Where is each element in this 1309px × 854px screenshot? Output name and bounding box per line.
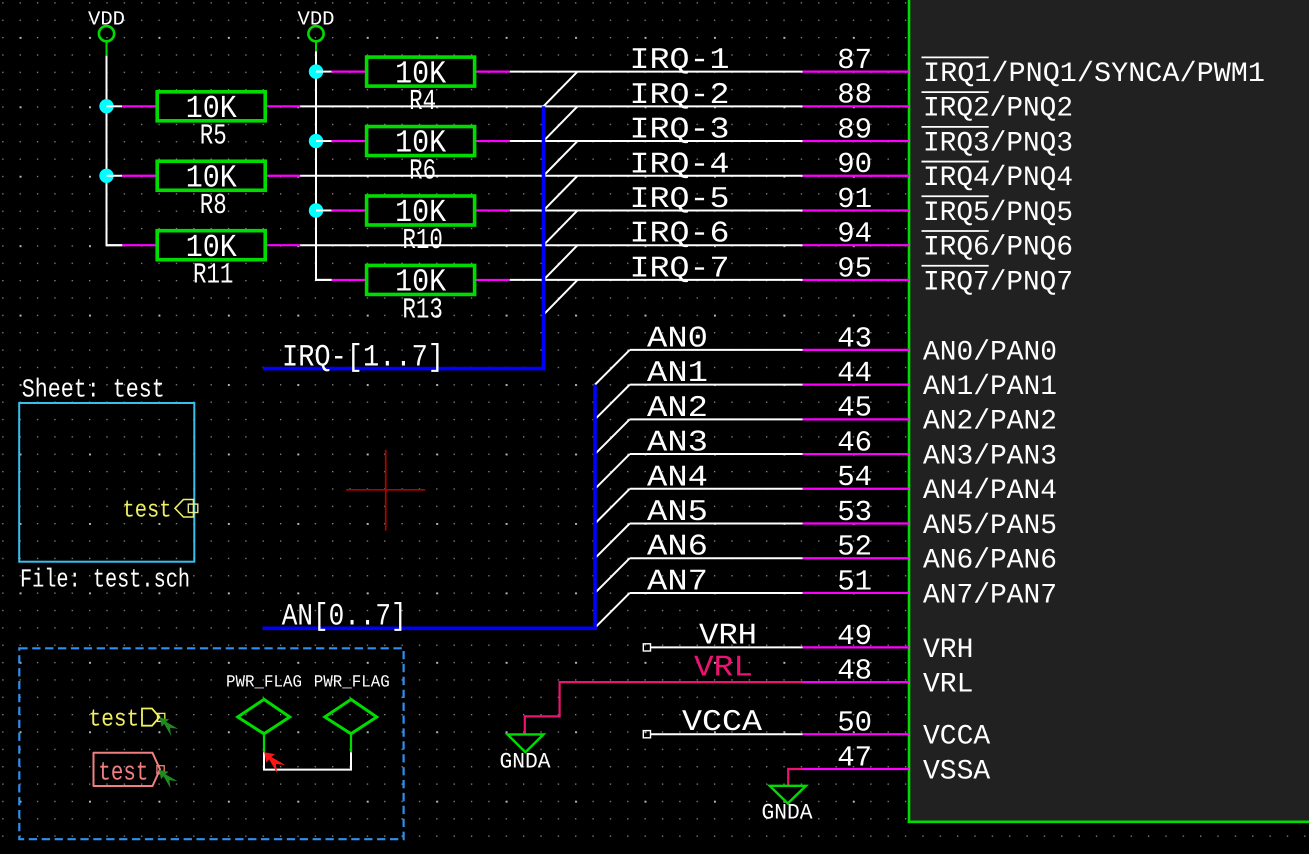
cursor crosshair bbox=[346, 450, 425, 531]
wire VCCA bbox=[650, 733, 802, 735]
pin 88 (IRQ2/PNQ2) bbox=[803, 79, 1074, 125]
svg-text:R4: R4 bbox=[409, 85, 436, 118]
svg-text:49: 49 bbox=[837, 620, 872, 653]
cursor arrow (red) bbox=[264, 752, 285, 773]
hierarchical label testD bbox=[89, 707, 165, 734]
wire AN net bbox=[630, 557, 803, 559]
resistor R11 (10K) bbox=[107, 229, 301, 292]
svg-text:PWR_FLAG: PWR_FLAG bbox=[226, 673, 302, 692]
sheet symbol "test" bbox=[19, 403, 194, 562]
bus entry bbox=[595, 524, 630, 559]
svg-text:VCCA: VCCA bbox=[923, 722, 990, 753]
svg-text:90: 90 bbox=[837, 148, 872, 181]
svg-text:43: 43 bbox=[837, 322, 872, 355]
svg-text:test: test bbox=[89, 707, 140, 734]
svg-text:AN5: AN5 bbox=[647, 496, 708, 530]
svg-text:AN1/PAN1: AN1/PAN1 bbox=[923, 372, 1057, 403]
bus entry bbox=[595, 350, 630, 385]
selection box (dashed) bbox=[19, 648, 403, 839]
svg-text:R13: R13 bbox=[402, 293, 443, 326]
wire AN net bbox=[630, 384, 803, 386]
svg-text:50: 50 bbox=[837, 707, 872, 740]
svg-text:VDD: VDD bbox=[88, 8, 125, 31]
svg-text:IRQ7/PNQ7: IRQ7/PNQ7 bbox=[923, 267, 1073, 298]
wire AN net bbox=[630, 592, 803, 594]
bus entry bbox=[544, 245, 578, 280]
svg-text:53: 53 bbox=[837, 496, 872, 529]
svg-text:IRQ-3: IRQ-3 bbox=[630, 114, 730, 148]
svg-text:IRQ-2: IRQ-2 bbox=[630, 79, 730, 113]
svg-text:52: 52 bbox=[837, 531, 872, 564]
wire AN net bbox=[630, 488, 803, 490]
svg-text:test: test bbox=[123, 498, 172, 525]
svg-text:91: 91 bbox=[837, 183, 872, 216]
svg-text:AN3: AN3 bbox=[647, 427, 708, 461]
unconnected-end square VRH bbox=[643, 644, 650, 651]
bus entry bbox=[544, 280, 578, 315]
pin 46 (AN3/PAN3) bbox=[803, 426, 1058, 472]
svg-text:AN3/PAN3: AN3/PAN3 bbox=[923, 441, 1057, 472]
power symbol VDD #1 bbox=[88, 8, 125, 56]
svg-text:R11: R11 bbox=[193, 259, 234, 292]
junction bbox=[99, 99, 113, 113]
svg-text:IRQ5/PNQ5: IRQ5/PNQ5 bbox=[923, 198, 1073, 229]
cursor arrow (green) #2 bbox=[159, 770, 177, 788]
svg-text:87: 87 bbox=[837, 44, 872, 77]
pin 45 (AN2/PAN2) bbox=[803, 392, 1058, 438]
junction bbox=[309, 134, 323, 148]
global label test bbox=[94, 753, 165, 788]
svg-text:AN[0..7]: AN[0..7] bbox=[282, 600, 407, 635]
svg-text:48: 48 bbox=[837, 655, 872, 688]
svg-text:IRQ-1: IRQ-1 bbox=[630, 44, 730, 78]
svg-text:AN7/PAN7: AN7/PAN7 bbox=[923, 580, 1057, 611]
bus entry bbox=[544, 106, 578, 141]
svg-text:95: 95 bbox=[837, 252, 872, 285]
svg-text:IRQ-4: IRQ-4 bbox=[630, 148, 730, 182]
svg-text:IRQ1/PNQ1/SYNCA/PWM1: IRQ1/PNQ1/SYNCA/PWM1 bbox=[923, 59, 1265, 90]
svg-text:51: 51 bbox=[837, 565, 872, 598]
svg-text:AN0/PAN0: AN0/PAN0 bbox=[923, 337, 1057, 368]
power flag PWR_FLAG #2 bbox=[314, 673, 390, 752]
svg-text:54: 54 bbox=[837, 461, 872, 494]
junction bbox=[99, 169, 113, 183]
pin 87 (IRQ1/PNQ1/SYNCA/PWM1) bbox=[803, 44, 1266, 90]
bus entry bbox=[595, 489, 630, 524]
pin 89 (IRQ3/PNQ3) bbox=[803, 113, 1074, 159]
svg-text:AN2/PAN2: AN2/PAN2 bbox=[923, 407, 1057, 438]
bus entry bbox=[595, 419, 630, 454]
wire IRQ net bbox=[300, 105, 803, 107]
wire IRQ net bbox=[510, 279, 803, 281]
wire AN net bbox=[630, 523, 803, 525]
svg-text:R8: R8 bbox=[200, 189, 227, 222]
svg-text:R5: R5 bbox=[200, 120, 227, 153]
pin 50 (VCCA) bbox=[803, 707, 991, 753]
pin 94 (IRQ6/PNQ6) bbox=[803, 218, 1074, 264]
bus entry bbox=[595, 385, 630, 420]
bus entry bbox=[595, 558, 630, 593]
wire AN net bbox=[630, 453, 803, 455]
resistor R13 (10K) bbox=[316, 264, 510, 327]
wire VSSA (highlighted) bbox=[788, 769, 802, 786]
ground GNDA #2 bbox=[762, 786, 814, 826]
svg-text:R10: R10 bbox=[402, 224, 443, 257]
bus entry bbox=[595, 454, 630, 489]
svg-text:IRQ-7: IRQ-7 bbox=[630, 252, 730, 286]
resistor R8 (10K) bbox=[107, 159, 301, 222]
svg-text:IRQ-6: IRQ-6 bbox=[630, 218, 730, 252]
wire IRQ net bbox=[510, 140, 803, 142]
svg-text:VRL: VRL bbox=[923, 670, 973, 701]
pin 44 (AN1/PAN1) bbox=[803, 357, 1058, 403]
svg-text:GNDA: GNDA bbox=[500, 749, 552, 774]
wire VDD rail 2 bbox=[316, 52, 332, 280]
resistor R5 (10K) bbox=[107, 90, 301, 153]
bus entry bbox=[595, 593, 630, 628]
wire VRH bbox=[650, 646, 802, 648]
resistor R4 (10K) bbox=[316, 55, 510, 118]
pin 43 (AN0/PAN0) bbox=[803, 322, 1058, 368]
wire IRQ net bbox=[510, 209, 803, 211]
svg-text:AN1: AN1 bbox=[647, 357, 708, 391]
svg-text:AN2: AN2 bbox=[647, 392, 708, 426]
bus entry bbox=[544, 210, 578, 245]
svg-text:VCCA: VCCA bbox=[682, 706, 762, 740]
pin 49 (VRH) bbox=[803, 620, 974, 666]
IC U1 body bbox=[910, 0, 1309, 821]
svg-text:44: 44 bbox=[837, 357, 872, 390]
svg-text:94: 94 bbox=[837, 218, 872, 251]
bus IRQ-[1..7] bbox=[263, 106, 544, 368]
svg-text:45: 45 bbox=[837, 392, 872, 425]
pin 48 (VRL) bbox=[803, 655, 974, 701]
pin 52 (AN6/PAN6) bbox=[803, 531, 1058, 577]
wire AN net bbox=[630, 418, 803, 420]
svg-text:88: 88 bbox=[837, 79, 872, 112]
resistor R10 (10K) bbox=[316, 194, 510, 257]
bus entry bbox=[544, 176, 578, 211]
wire between power flags bbox=[264, 752, 351, 769]
svg-text:46: 46 bbox=[837, 426, 872, 459]
svg-text:AN5/PAN5: AN5/PAN5 bbox=[923, 511, 1057, 542]
unconnected-end square VCCA bbox=[643, 731, 650, 738]
svg-text:IRQ3/PNQ3: IRQ3/PNQ3 bbox=[923, 128, 1073, 159]
svg-text:89: 89 bbox=[837, 113, 872, 146]
svg-text:R6: R6 bbox=[409, 154, 436, 187]
svg-text:IRQ2/PNQ2: IRQ2/PNQ2 bbox=[923, 94, 1073, 125]
pin 51 (AN7/PAN7) bbox=[803, 565, 1058, 611]
wire IRQ net bbox=[300, 175, 803, 177]
svg-text:VRL: VRL bbox=[694, 652, 753, 686]
svg-text:GNDA: GNDA bbox=[762, 801, 814, 826]
svg-text:47: 47 bbox=[837, 741, 872, 774]
svg-text:VRH: VRH bbox=[699, 620, 757, 654]
svg-text:AN6: AN6 bbox=[647, 531, 708, 565]
junction bbox=[309, 64, 323, 78]
svg-text:AN6/PAN6: AN6/PAN6 bbox=[923, 546, 1057, 577]
wire IRQ net bbox=[510, 71, 803, 73]
power symbol VDD #2 bbox=[298, 8, 335, 51]
cursor arrow (green) #1 bbox=[160, 718, 178, 736]
svg-text:IRQ6/PNQ6: IRQ6/PNQ6 bbox=[923, 233, 1073, 264]
wire AN net bbox=[630, 349, 803, 351]
svg-text:IRQ4/PNQ4: IRQ4/PNQ4 bbox=[923, 163, 1073, 194]
pin 91 (IRQ5/PNQ5) bbox=[803, 183, 1074, 229]
svg-text:File: test.sch: File: test.sch bbox=[20, 565, 190, 595]
ground GNDA #1 bbox=[500, 734, 552, 774]
bus AN[0..7] bbox=[263, 385, 596, 629]
svg-text:PWR_FLAG: PWR_FLAG bbox=[314, 673, 390, 692]
svg-text:AN4: AN4 bbox=[647, 461, 708, 495]
resistor R6 (10K) bbox=[316, 125, 510, 188]
wire VDD rail 1 bbox=[107, 56, 123, 245]
svg-text:VSSA: VSSA bbox=[923, 756, 990, 787]
power flag PWR_FLAG #1 bbox=[226, 673, 302, 752]
svg-text:test: test bbox=[98, 758, 148, 788]
svg-text:Sheet: test: Sheet: test bbox=[22, 375, 165, 405]
wire IRQ net bbox=[300, 244, 803, 246]
svg-text:AN7: AN7 bbox=[647, 565, 708, 599]
svg-text:VDD: VDD bbox=[298, 8, 335, 31]
pin 90 (IRQ4/PNQ4) bbox=[803, 148, 1074, 194]
sheet pin "test" bbox=[123, 498, 198, 525]
bus entry bbox=[544, 72, 578, 107]
pin 95 (IRQ7/PNQ7) bbox=[803, 252, 1074, 298]
junction bbox=[309, 203, 323, 217]
svg-text:VRH: VRH bbox=[923, 635, 973, 666]
svg-text:AN4/PAN4: AN4/PAN4 bbox=[923, 476, 1057, 507]
pin 47 (VSSA) bbox=[803, 741, 991, 787]
svg-text:IRQ-5: IRQ-5 bbox=[630, 183, 730, 217]
pin 54 (AN4/PAN4) bbox=[803, 461, 1058, 507]
wire VRL (highlighted) bbox=[525, 682, 803, 734]
svg-text:AN0: AN0 bbox=[647, 322, 708, 356]
bus entry bbox=[544, 141, 578, 176]
pin 53 (AN5/PAN5) bbox=[803, 496, 1058, 542]
svg-text:IRQ-[1..7]: IRQ-[1..7] bbox=[282, 341, 444, 376]
